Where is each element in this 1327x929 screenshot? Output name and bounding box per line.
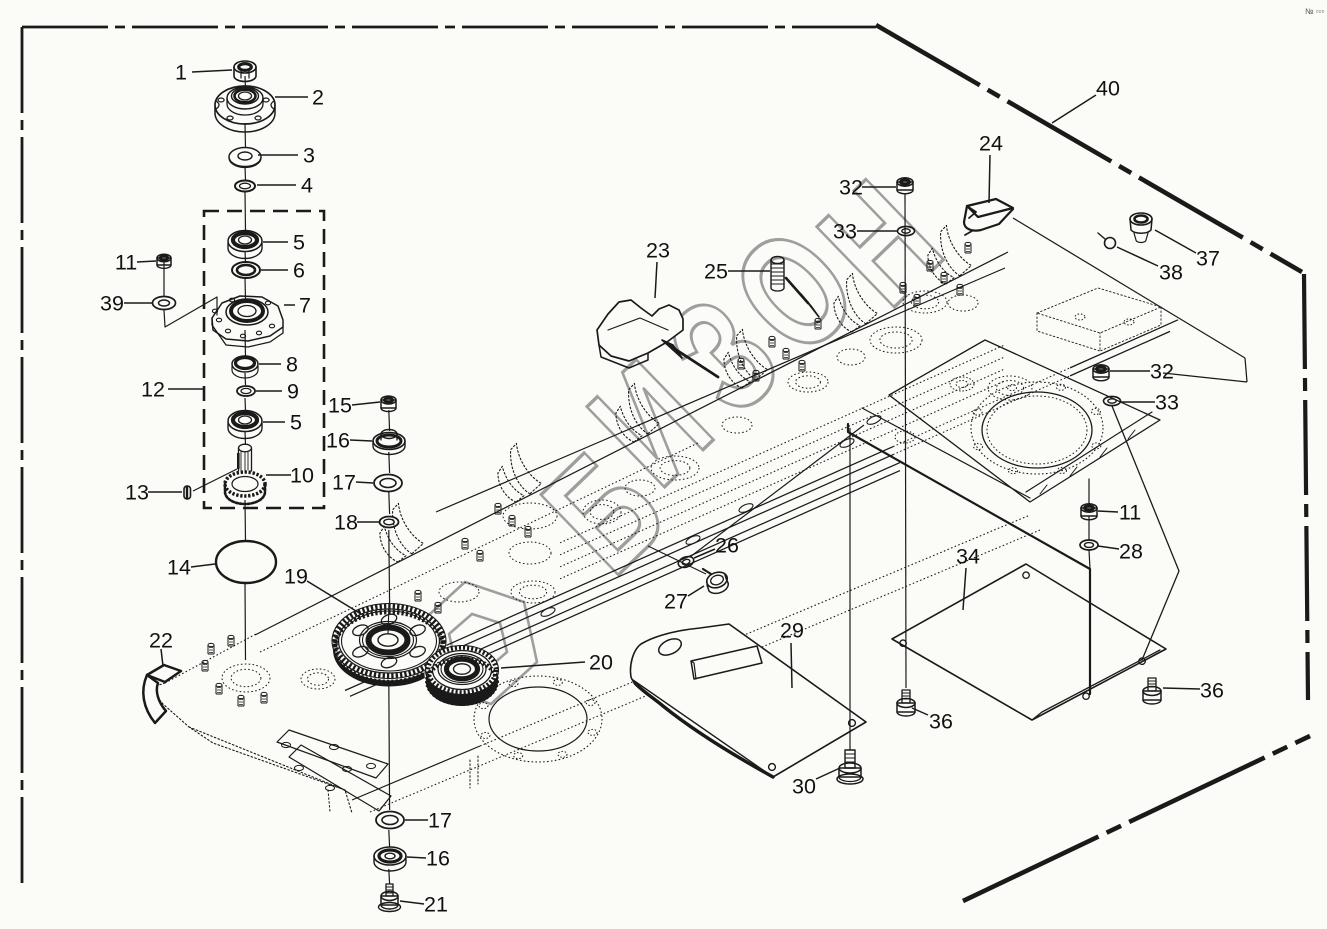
nut 32 right — [1093, 365, 1109, 381]
svg-text:37: 37 — [1196, 247, 1220, 271]
rail slot holes — [540, 606, 556, 618]
spring pin 25 — [771, 257, 784, 292]
stud — [228, 635, 234, 646]
arrow 23 — [675, 349, 718, 377]
washer 28 — [1080, 540, 1098, 550]
nut 11 right — [1081, 504, 1097, 520]
clip 24 — [964, 199, 1013, 235]
blade holder 23 — [597, 300, 683, 368]
svg-text:36: 36 — [929, 710, 953, 734]
svg-text:№ ▫▫▫: № ▫▫▫ — [1305, 7, 1324, 16]
skid 22 — [143, 665, 181, 723]
svg-text:22: 22 — [149, 629, 173, 653]
svg-text:20: 20 — [589, 651, 613, 675]
svg-text:25: 25 — [704, 260, 728, 284]
bolt 30 — [837, 750, 863, 784]
arrow 25 — [786, 278, 808, 303]
bolt 27 axis — [648, 546, 706, 574]
svg-text:9: 9 — [287, 380, 299, 404]
oring 14 — [216, 541, 276, 583]
washer 33 right — [1104, 396, 1121, 405]
cover 34 — [892, 564, 1166, 720]
deck back edge baseline — [255, 252, 1008, 635]
plug 37 — [1130, 213, 1152, 243]
svg-text:32: 32 — [839, 176, 863, 200]
svg-text:24: 24 — [979, 132, 1003, 156]
svg-text:23: 23 — [646, 239, 670, 263]
stud — [202, 660, 208, 671]
stud — [815, 318, 821, 329]
bearing 5 bottom — [228, 411, 262, 439]
svg-text:5: 5 — [293, 231, 305, 255]
stud — [435, 602, 441, 613]
svg-text:7: 7 — [299, 294, 311, 318]
support channel dotted band — [560, 345, 1005, 543]
stud — [525, 526, 531, 537]
svg-text:39: 39 — [100, 292, 124, 316]
stud — [900, 282, 906, 293]
svg-text:29: 29 — [780, 619, 804, 643]
svg-text:21: 21 — [424, 893, 448, 917]
nut 1 — [234, 61, 256, 82]
svg-text:17: 17 — [332, 471, 356, 495]
washer 26 — [677, 555, 695, 570]
svg-text:30: 30 — [792, 775, 816, 799]
oring 17 top — [374, 475, 402, 492]
svg-text:5: 5 — [290, 411, 302, 435]
svg-text:10: 10 — [290, 464, 314, 488]
svg-text:28: 28 — [1119, 540, 1143, 564]
svg-text:18: 18 — [334, 511, 358, 535]
svg-text:33: 33 — [833, 220, 857, 244]
stud — [927, 260, 933, 271]
bolt 36 left — [897, 690, 915, 716]
svg-text:16: 16 — [426, 847, 450, 871]
svg-text:13: 13 — [125, 481, 149, 505]
ring 9 — [237, 386, 255, 396]
gear 19 — [332, 604, 447, 687]
svg-text:4: 4 — [301, 174, 313, 198]
vertical line 32a to 36a — [905, 193, 906, 688]
oring 18 — [380, 517, 399, 528]
rail channel solid lines — [345, 447, 893, 691]
svg-text:11: 11 — [115, 251, 137, 275]
washer 33 left — [898, 226, 915, 235]
bearing 5 top — [228, 231, 262, 259]
svg-text:15: 15 — [328, 394, 352, 418]
stud — [799, 360, 805, 371]
left shoe plates solid — [277, 730, 388, 778]
stud — [753, 370, 759, 381]
long mid line — [436, 268, 1005, 512]
stud — [216, 683, 222, 694]
svg-text:33: 33 — [1155, 391, 1179, 415]
leader 33b V line — [1112, 406, 1179, 660]
stud — [261, 692, 267, 703]
stud — [415, 590, 421, 601]
stud — [914, 294, 920, 305]
watermark logo ring — [419, 582, 537, 704]
deck right end edge — [1013, 218, 1245, 358]
svg-text:8: 8 — [286, 353, 298, 377]
left gearbox gasket dotted — [474, 676, 602, 762]
stud — [769, 336, 775, 347]
svg-text:32: 32 — [1150, 360, 1174, 384]
stud — [462, 538, 468, 549]
stud — [495, 503, 501, 514]
bolt 21 — [379, 884, 401, 912]
svg-text:34: 34 — [956, 545, 980, 569]
hub 2 — [215, 86, 275, 132]
bushing 16 top — [373, 430, 405, 455]
nut 15 — [381, 396, 396, 412]
svg-text:19: 19 — [284, 565, 308, 589]
bolt 36 right — [1143, 678, 1161, 704]
dashed box 12 — [204, 211, 324, 508]
svg-text:2: 2 — [312, 86, 324, 110]
line 11-39 and zigzag — [164, 262, 217, 327]
nut 11 left — [157, 254, 171, 268]
nut 32 left — [897, 178, 913, 194]
svg-text:17: 17 — [428, 809, 452, 833]
svg-text:40: 40 — [1096, 77, 1120, 101]
svg-text:26: 26 — [715, 534, 739, 558]
pin 38 — [1105, 238, 1116, 249]
watermark text — [511, 416, 697, 605]
svg-text:6: 6 — [293, 259, 305, 283]
lower front angle lines — [352, 746, 480, 800]
svg-text:1: 1 — [175, 61, 187, 85]
stud — [783, 348, 789, 359]
right end bracket dotted — [1037, 288, 1161, 333]
svg-text:27: 27 — [664, 590, 688, 614]
housing 7 — [212, 296, 283, 347]
stud — [477, 550, 483, 561]
ring 4 — [235, 181, 255, 192]
bushing 16 bottom — [374, 847, 406, 871]
svg-text:16: 16 — [326, 429, 350, 453]
stud — [941, 272, 947, 283]
svg-text:11: 11 — [1119, 501, 1141, 525]
centerline mid column — [388, 410, 391, 431]
right gasket — [971, 382, 1103, 474]
right gearbox plate — [889, 340, 1160, 502]
stud — [238, 695, 244, 706]
bolt 27 — [703, 569, 729, 593]
stud — [738, 358, 744, 369]
stud — [965, 242, 971, 253]
gear 20 — [425, 645, 500, 706]
oring 17 bottom — [376, 812, 404, 829]
svg-text:3: 3 — [303, 144, 315, 168]
svg-text:38: 38 — [1159, 261, 1183, 285]
stud — [957, 284, 963, 295]
label leaders — [192, 70, 232, 72]
deck left outline dotted — [150, 683, 352, 813]
seal 8 — [232, 356, 258, 378]
centerline left stack — [244, 76, 247, 90]
stud — [208, 643, 214, 654]
stud line B + leader to 30 — [848, 424, 1090, 694]
line 11b/28 — [1089, 479, 1090, 569]
svg-text:12: 12 — [141, 378, 165, 402]
stud — [509, 515, 515, 526]
svg-text:36: 36 — [1200, 679, 1224, 703]
serration fins dotted — [369, 502, 426, 565]
pin 13 — [184, 486, 191, 499]
cover 29 — [630, 624, 866, 777]
washer 39 — [153, 297, 176, 310]
svg-text:14: 14 — [167, 556, 191, 580]
leader 26/27 line to rail — [690, 425, 864, 557]
shaft gear 10 — [225, 444, 265, 504]
deck dotted spindle holes — [222, 664, 270, 692]
washer 3 — [229, 148, 261, 168]
line 13 leader to shaft — [193, 469, 237, 491]
ring 6 — [232, 262, 260, 278]
